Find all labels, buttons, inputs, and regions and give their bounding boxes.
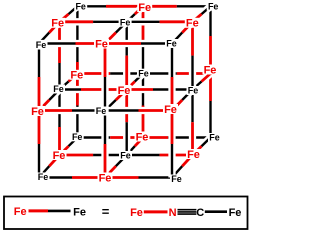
svg-text:Fe: Fe <box>72 132 83 142</box>
svg-text:Fe: Fe <box>136 131 149 143</box>
svg-text:Fe: Fe <box>53 84 64 94</box>
svg-text:Fe: Fe <box>166 39 177 49</box>
svg-text:Fe: Fe <box>53 150 66 162</box>
svg-text:Fe: Fe <box>130 207 143 219</box>
svg-text:Fe: Fe <box>204 64 217 76</box>
svg-text:Fe: Fe <box>14 206 27 218</box>
svg-text:Fe: Fe <box>120 17 131 27</box>
svg-text:Fe: Fe <box>186 18 199 30</box>
svg-text:=: = <box>102 204 110 219</box>
svg-text:Fe: Fe <box>138 68 149 78</box>
svg-text:Fe: Fe <box>209 133 220 143</box>
svg-text:C: C <box>196 207 204 219</box>
svg-text:Fe: Fe <box>118 85 131 97</box>
svg-text:N: N <box>169 207 177 219</box>
svg-text:Fe: Fe <box>96 106 107 116</box>
svg-text:Fe: Fe <box>38 172 49 182</box>
svg-text:Fe: Fe <box>164 104 177 116</box>
svg-text:Fe: Fe <box>120 151 131 161</box>
svg-text:Fe: Fe <box>75 1 86 11</box>
svg-text:Fe: Fe <box>208 1 219 11</box>
svg-text:Fe: Fe <box>138 2 151 14</box>
svg-text:Fe: Fe <box>187 149 200 161</box>
svg-text:Fe: Fe <box>73 207 86 219</box>
svg-text:Fe: Fe <box>31 106 44 118</box>
svg-text:Fe: Fe <box>99 172 112 184</box>
svg-text:Fe: Fe <box>95 38 108 50</box>
svg-text:Fe: Fe <box>171 174 182 184</box>
svg-text:Fe: Fe <box>229 207 242 219</box>
svg-text:Fe: Fe <box>36 40 47 50</box>
svg-text:Fe: Fe <box>188 86 199 96</box>
svg-text:Fe: Fe <box>70 70 83 82</box>
svg-text:Fe: Fe <box>51 18 64 30</box>
